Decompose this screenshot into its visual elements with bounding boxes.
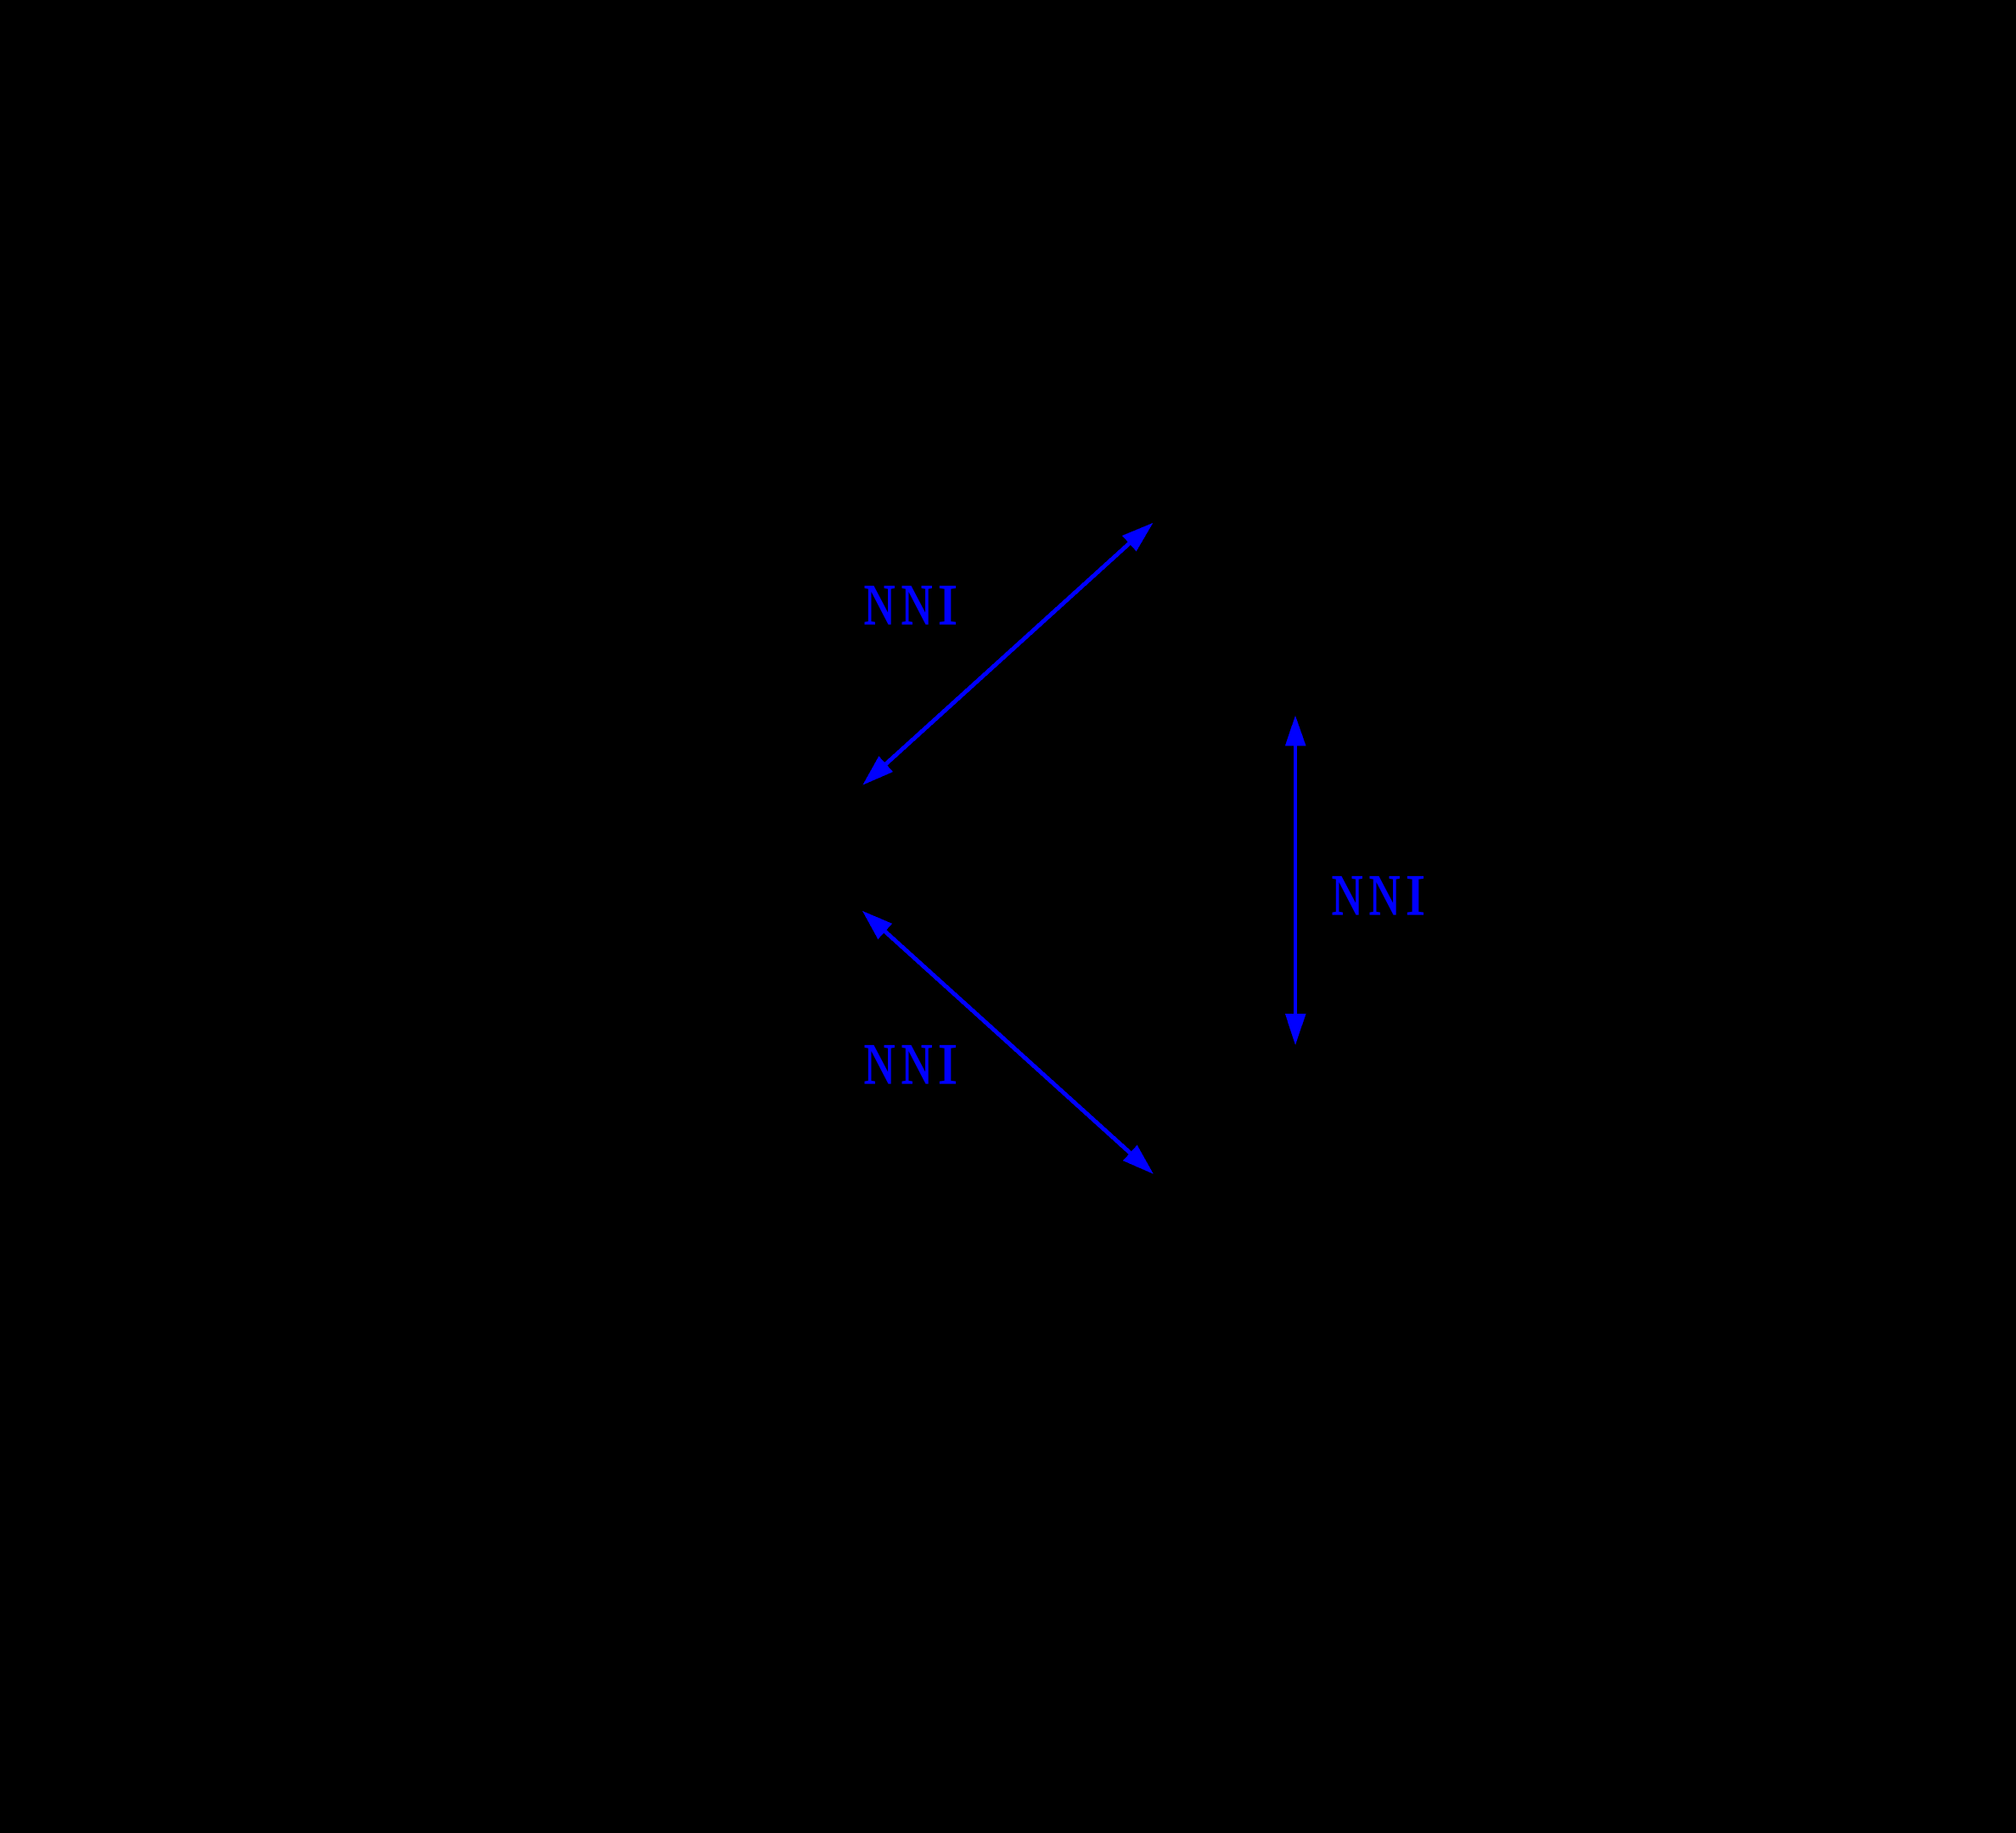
label NNI (vertical arrow) — [1331, 863, 1424, 928]
svg-text:I: I — [938, 1032, 957, 1096]
label NNI (lower arrow) — [863, 1032, 957, 1097]
NNI arrow A3 (double-headed, middle-left tree to bottom tree) — [862, 911, 1154, 1174]
svg-text:N: N — [863, 573, 895, 638]
svg-text:I: I — [938, 572, 957, 637]
svg-text:I: I — [1406, 863, 1425, 927]
NNI arrow A2 (vertical, between right-hand trees) — [1285, 716, 1306, 1045]
svg-text:N: N — [901, 573, 932, 638]
NNI arrow A1 (double-headed, lower-left tree to top tree) — [862, 523, 1153, 785]
svg-text:N: N — [1368, 863, 1400, 928]
svg-text:N: N — [1331, 863, 1362, 928]
label NNI (upper-left arrow) — [863, 572, 957, 638]
svg-text:N: N — [901, 1032, 932, 1097]
svg-text:N: N — [863, 1032, 895, 1097]
